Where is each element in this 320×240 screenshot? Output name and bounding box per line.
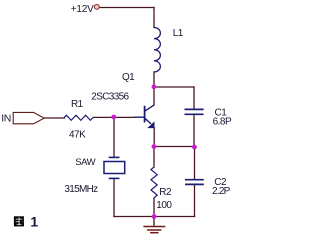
wire emitter node to C2 branch: [154, 146, 195, 148]
svg-text:100: 100: [156, 200, 172, 211]
wire emitter to R2 top: [153, 128, 155, 167]
svg-text:47K: 47K: [69, 129, 86, 140]
wire ground stub: [153, 217, 155, 227]
wire C1 bottom lead: [193, 115, 195, 148]
capacitor C1 bottom plate: [185, 113, 204, 115]
SAW resonator body rectangle: [104, 162, 125, 174]
transistor Q1 emitter line: [145, 118, 151, 123]
capacitor C1 top plate: [185, 108, 204, 110]
port IN arrow symbol: [13, 112, 44, 123]
transistor Q1 base bar: [144, 106, 146, 123]
svg-text:1: 1: [30, 214, 38, 230]
junction ground node: [152, 214, 157, 219]
transistor Q1 collector line: [145, 105, 154, 111]
inductor L1 coil: [154, 27, 160, 71]
svg-text:R1: R1: [71, 99, 84, 110]
svg-text:+12V: +12V: [71, 4, 94, 15]
SAW resonator bottom plate: [109, 177, 120, 179]
wire IN port to R1: [44, 117, 65, 119]
resistor R1 zigzag: [64, 115, 94, 120]
svg-text:315MHz: 315MHz: [64, 184, 98, 195]
svg-text:2.2P: 2.2P: [212, 186, 231, 197]
ground symbol bar3: [150, 232, 158, 234]
caption figure glyph (CJK tu): [14, 216, 24, 226]
capacitor C2 top plate: [185, 179, 204, 181]
wire +12V terminal to top-right corner: [100, 7, 155, 9]
resistor R2 zigzag: [151, 167, 157, 199]
wire collector node to C1 branch: [154, 86, 194, 88]
junction base node: [111, 115, 116, 120]
transistor Q1 base lead: [134, 116, 145, 118]
wire R1 to base node to Q1 base: [94, 116, 134, 118]
svg-text:L1: L1: [173, 28, 184, 39]
wire L1 bottom to collector node: [153, 72, 155, 105]
svg-text:Q1: Q1: [122, 72, 135, 83]
power port +12V terminal circle: [94, 5, 99, 10]
transistor Q1 emitter arrowhead: [147, 121, 154, 128]
junction C2 top node: [192, 145, 197, 150]
svg-text:SAW: SAW: [75, 157, 95, 168]
wire C2 bottom lead: [194, 185, 196, 217]
wire C2 top lead: [194, 147, 196, 180]
wire down from corner to L1 top: [153, 8, 155, 28]
wire C1 top lead: [193, 87, 195, 109]
wire SAW bottom lead: [113, 179, 115, 217]
wire R2 bottom lead: [153, 199, 155, 217]
svg-text:R2: R2: [159, 187, 172, 198]
svg-text:2SC3356: 2SC3356: [91, 91, 129, 102]
ground symbol bar2: [147, 229, 161, 231]
capacitor C2 bottom plate: [185, 183, 204, 185]
junction emitter node: [152, 144, 157, 149]
svg-text:IN: IN: [1, 113, 11, 125]
svg-text:6.8P: 6.8P: [213, 116, 232, 127]
junction collector node: [152, 84, 157, 89]
SAW resonator top plate: [109, 156, 120, 158]
ground symbol bar1: [143, 226, 165, 228]
wire ground rail: [114, 216, 195, 218]
wire base node down to SAW top: [113, 118, 115, 158]
